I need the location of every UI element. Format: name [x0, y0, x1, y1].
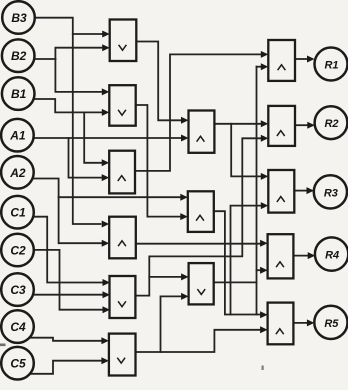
gates column 2 [109, 20, 295, 376]
symbol AND10 [278, 65, 286, 70]
wire AND13 out to R4 [293, 255, 308, 257]
arrow AND11 in2 [261, 135, 269, 142]
arrow OR9 in1 [181, 273, 189, 280]
wire C2 to OR5 in3 [34, 250, 104, 310]
gate AND13 box [268, 234, 294, 278]
svg-text:C1: C1 [10, 206, 26, 220]
wire AND8 branch to AND12 in2 [231, 206, 262, 315]
wire OR6 branch to OR9 in2 [161, 296, 183, 352]
scan speck left edge [0, 344, 6, 347]
arrow AND10 in1 [261, 51, 269, 58]
wire B3 to bus [35, 18, 100, 224]
arrowheads into gates [101, 31, 315, 365]
wire B2 down branch to OR2 in1 [55, 59, 103, 92]
wire C3 to OR5 in2 [34, 294, 103, 296]
node B3 [2, 1, 35, 34]
svg-text:R5: R5 [324, 318, 339, 330]
symbol OR1 [119, 45, 127, 50]
arrow AND13 in1 [260, 240, 268, 247]
wire B1 to OR2 in2 [34, 99, 103, 112]
node R4 [315, 237, 348, 270]
symbol AND13 [276, 262, 284, 267]
wire B2 to jog [34, 58, 55, 60]
symbol OR9 [197, 289, 205, 294]
gate AND11 box [268, 106, 295, 146]
wire A1 branch to AND3 in2 [69, 138, 104, 178]
wire AND14 out to R5 [293, 322, 307, 324]
arrow OR1 in1 [102, 31, 110, 38]
arrow OR5 in3 [103, 306, 111, 313]
node C2 [1, 234, 34, 267]
gate AND8 box [188, 191, 214, 232]
arrow OR6 in1 [101, 337, 109, 344]
arrow into R1 [307, 56, 315, 63]
arrow OR2 in2 [102, 109, 110, 116]
gate AND4 box [109, 217, 136, 259]
arrow AND13 in2 [260, 267, 268, 274]
node R3 [314, 175, 347, 208]
arrow AND10 in2 [261, 63, 269, 70]
svg-text:R3: R3 [324, 187, 338, 199]
gate OR1 box [110, 20, 137, 62]
wire A2 branch to AND8 in1 [59, 196, 181, 198]
arrow OR5 in2 [103, 291, 111, 298]
svg-text:B3: B3 [11, 11, 27, 25]
svg-text:B1: B1 [11, 87, 27, 101]
node B2 [2, 39, 35, 72]
wire A1 to AND7 in2 [34, 137, 182, 139]
wire OR9 branch to AND13 in2 [257, 269, 262, 271]
wire OR6 out to AND14 in2 [136, 330, 262, 352]
wire OR1 out to AND7 in1 [136, 42, 182, 121]
wire AND7 branch to AND12 in1 [231, 124, 261, 177]
node C5 [1, 347, 34, 380]
svg-text:C5: C5 [10, 357, 26, 371]
wire OR9 to AND10 in2 [257, 66, 263, 68]
arrow into R4 [308, 252, 316, 259]
wire B1 branch to AND3 in1 [84, 112, 103, 162]
symbol OR2 [118, 110, 126, 115]
arrow OR9 in2 [181, 293, 189, 300]
arrow OR2 in1 [102, 88, 110, 95]
gate AND10 box [268, 40, 295, 81]
arrow into R3 [307, 187, 315, 194]
arrow OR6 in2 [101, 357, 109, 364]
node R1 [315, 48, 348, 81]
wire AND8 out to AND14 in1 [214, 211, 262, 314]
gate OR2 box [109, 85, 135, 126]
arrow AND3 in2 [102, 174, 110, 181]
arrow into R2 [307, 122, 315, 129]
wire A2 to AND4 in2 [33, 179, 103, 244]
node A1 [1, 119, 34, 152]
node C1 [1, 196, 34, 229]
node A2 [1, 156, 34, 189]
wire OR5 branch to OR9 in1 [149, 276, 182, 278]
wire AND11 out to R2 [295, 124, 308, 126]
wire AND7 out to AND11 in1 [214, 123, 262, 125]
arrow AND4 in1 [102, 221, 110, 228]
wire B3 branch to OR1 in1 [73, 33, 103, 35]
svg-text:A2: A2 [9, 166, 26, 180]
gate AND7 box [189, 111, 215, 153]
symbol AND3 [118, 176, 126, 181]
svg-text:R1: R1 [324, 60, 338, 72]
arrow AND14 in2 [260, 326, 268, 333]
svg-text:C2: C2 [10, 244, 26, 258]
gate AND14 box [268, 303, 294, 345]
arrow AND14 in1 [260, 311, 268, 318]
arrow AND4 in2 [102, 240, 110, 247]
symbol OR5 [118, 301, 126, 306]
wire OR9 out riser [214, 281, 257, 283]
wire AND4 out to AND13 in1 [136, 243, 261, 245]
gate OR9 box [189, 263, 214, 304]
wire C4 to OR6 in1 [30, 338, 103, 341]
arrow OR5 in1 [103, 279, 111, 286]
wire B2 up branch to OR1 in2 [55, 48, 103, 59]
svg-text:R2: R2 [324, 118, 338, 130]
svg-text:A1: A1 [9, 129, 26, 143]
wire OR5 out to AND11 in2 [135, 138, 262, 295]
symbol AND8 [196, 215, 204, 220]
arrow AND7 in1 [181, 117, 189, 124]
symbol OR6 [117, 358, 125, 363]
arrow AND8 in1 [180, 194, 188, 201]
node R5 [314, 306, 347, 339]
arrow AND8 in2 [180, 213, 188, 220]
node C3 [1, 273, 34, 306]
gate symbols [117, 45, 285, 363]
node B1 [2, 77, 35, 110]
gate AND3 box [109, 151, 135, 194]
arrow into R5 [307, 319, 315, 326]
arrow OR1 in2 [102, 44, 110, 51]
symbol AND7 [197, 136, 205, 141]
wire C1 to OR5 in1 [34, 217, 104, 283]
arrow AND12 in1 [261, 173, 269, 180]
wire OR2 out to AND8 in2 [136, 105, 182, 217]
arrow AND3 in1 [102, 159, 110, 166]
svg-text:B2: B2 [11, 49, 27, 63]
arrow AND11 in1 [261, 120, 269, 127]
wire AND3 out to AND10 in1 [135, 54, 262, 170]
svg-text:C4: C4 [10, 320, 26, 334]
svg-text:C3: C3 [10, 283, 26, 297]
wire AND10 out to R1 [295, 58, 308, 60]
scan speck near bottom [262, 366, 264, 371]
arrow AND12 in2 [261, 202, 269, 209]
gate AND12 box [268, 170, 294, 213]
svg-text:R4: R4 [325, 250, 339, 262]
gate OR5 box [110, 276, 136, 318]
wire OR9 bus vertical [256, 67, 258, 315]
symbol AND12 [277, 197, 285, 202]
gate OR6 box [109, 334, 136, 376]
wire C5 to OR6 in2 [30, 361, 103, 374]
symbol AND4 [118, 241, 126, 246]
node R2 [315, 106, 348, 139]
symbol AND14 [276, 329, 284, 334]
wire AND12 out to R3 [294, 190, 307, 192]
node C4 [1, 310, 34, 343]
arrow AND7 in2 [181, 135, 189, 142]
symbol AND11 [277, 131, 285, 136]
